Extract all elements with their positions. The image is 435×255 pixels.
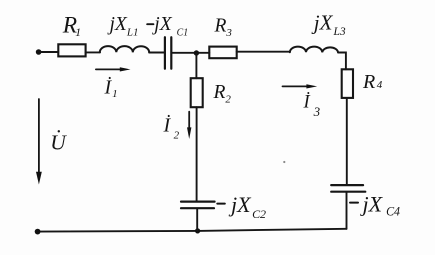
svg-text:U: U: [50, 131, 67, 155]
wire: R2 down to C2: [196, 107, 198, 200]
wire: C2 down to bottom node: [196, 209, 198, 231]
voltage source arrow U (downward): [38, 99, 40, 173]
inductor L1 (jX_L1): [100, 46, 149, 52]
capacitor C1 (-jX_C1) plates: [165, 37, 171, 68]
resistor R2: [191, 78, 203, 107]
wire: terminal to R1: [41, 51, 59, 53]
resistor R3: [209, 47, 236, 59]
current arrow I2 (downward): [188, 112, 190, 128]
wire: L3 to corner, down to R4: [338, 53, 346, 70]
label -jX_C2 minus sign: [217, 203, 225, 205]
dot above U: [58, 130, 60, 132]
wire: C1 to node A: [172, 52, 209, 54]
wire: R4 to C4: [346, 98, 348, 184]
terminal node bottom-left: [35, 229, 41, 235]
wire: node A down to R2: [195, 54, 197, 79]
resistor R1: [58, 44, 85, 56]
wire: L1 to C1: [149, 52, 164, 54]
inductor L3 (jX_L3): [290, 47, 338, 53]
wire: C4 down to bottom right corner: [346, 193, 348, 229]
current arrow I1 (rightward): [96, 68, 121, 70]
wire: R1 to L1: [86, 51, 100, 53]
bottom node junction dot: [195, 228, 200, 233]
label -jX_C1 minus sign: [147, 23, 153, 25]
label -jX_C4 minus sign: [350, 202, 358, 204]
resistor R4: [342, 69, 353, 98]
terminal node top-left: [36, 49, 42, 55]
current arrow I3 (rightward): [283, 85, 308, 87]
wire: R3 to L3: [237, 51, 290, 53]
capacitor C2 (-jX_C2) plates: [181, 202, 215, 209]
capacitor C4 (-jX_C4) plates: [331, 185, 365, 192]
bottom wire (right corner to bottom node to left terminal): [38, 229, 347, 232]
node A junction dot: [194, 50, 199, 55]
